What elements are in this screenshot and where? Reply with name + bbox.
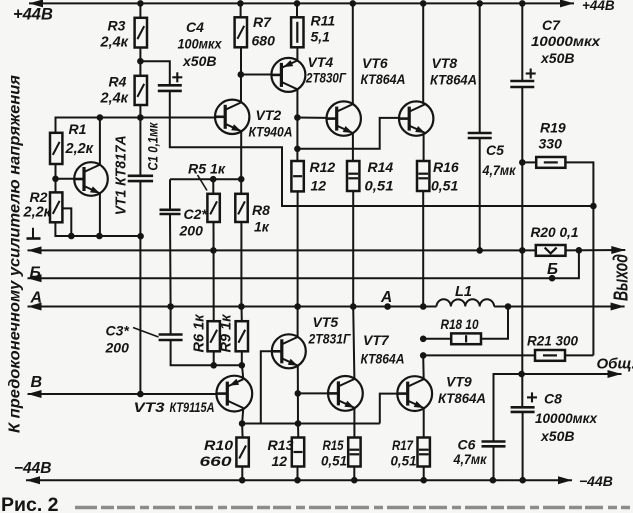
node VT2 emitter junction xyxy=(238,176,245,183)
node R3/R4/C4 junction xyxy=(137,58,144,65)
capacitor C3 xyxy=(159,333,183,336)
resistor R6 xyxy=(208,321,220,351)
resistor R15 xyxy=(348,438,360,467)
svg-text:С2*: С2* xyxy=(184,206,208,222)
wire rail to R7 xyxy=(240,3,242,17)
node A left arrow xyxy=(28,303,42,311)
node top rail C5 junction xyxy=(476,0,483,7)
wire R3-R4 link xyxy=(139,48,141,76)
node R15 rail junction xyxy=(351,477,358,484)
node R16 bus A junction xyxy=(420,303,427,310)
wire rail to C5 xyxy=(479,3,481,133)
node R6 bottom junction xyxy=(210,362,217,369)
node top rail R3 junction xyxy=(137,0,144,7)
svg-text:R11: R11 xyxy=(311,13,336,29)
capacitor C6 xyxy=(482,440,506,443)
svg-text:VT8: VT8 xyxy=(432,55,458,71)
svg-text:VT6: VT6 xyxy=(362,55,388,71)
wire bus to R20 (y=250.4) xyxy=(28,249,536,251)
power -44V left arrow xyxy=(26,476,40,484)
svg-text:Общ.: Общ. xyxy=(597,356,633,373)
svg-text:−44В: −44В xyxy=(14,460,52,477)
svg-text:КТ940А: КТ940А xyxy=(249,124,293,140)
transistor VT7 xyxy=(328,376,363,411)
resistor R16 xyxy=(417,161,429,191)
capacitor C4 xyxy=(158,84,182,87)
svg-text:Рис. 2: Рис. 2 xyxy=(1,494,59,513)
inductor L1 xyxy=(437,299,495,306)
svg-text:R20 0,1: R20 0,1 xyxy=(531,224,579,240)
wire R15 bottom lead xyxy=(353,467,355,481)
node R8/R9 bus A junction xyxy=(238,303,245,310)
wire VT1 emitter xyxy=(99,193,101,236)
node VT3 collector junction xyxy=(239,420,246,427)
svg-text:А: А xyxy=(30,289,43,306)
svg-text:1к: 1к xyxy=(254,219,270,235)
wire +44V top rail xyxy=(29,2,574,4)
svg-text:VT7: VT7 xyxy=(363,332,390,348)
wire R17 bottom lead xyxy=(423,467,425,481)
svg-text:+44В: +44В xyxy=(13,6,53,24)
wire B bus to R20 output xyxy=(552,250,579,278)
svg-text:В: В xyxy=(31,374,43,391)
svg-text:х50В: х50В xyxy=(540,428,574,444)
wire VT5 emitter down xyxy=(297,366,299,424)
capacitor C4 plus xyxy=(172,76,182,78)
node bootstrap end junction xyxy=(590,203,597,210)
node R4/C1/VT2-base junction xyxy=(137,114,144,121)
wire VT5 base hook xyxy=(261,351,272,423)
node driver column bus A junction xyxy=(294,303,301,310)
wire C4 to bootstrap line xyxy=(170,91,594,206)
svg-text:660: 660 xyxy=(200,453,232,469)
svg-text:R14: R14 xyxy=(368,159,394,175)
svg-text:Выход: Выход xyxy=(611,254,633,301)
transistor VT3 xyxy=(216,376,252,412)
resistor R10 xyxy=(236,438,248,467)
wire R2 tap xyxy=(62,208,71,236)
svg-text:VT1 КТ817А: VT1 КТ817А xyxy=(114,135,130,215)
svg-text:R3: R3 xyxy=(108,18,126,34)
svg-text:R8: R8 xyxy=(252,202,270,218)
wire R8 bottom to R9 top xyxy=(240,222,242,307)
svg-text:12: 12 xyxy=(272,453,288,469)
node R2 tap junction xyxy=(68,233,75,240)
svg-text:R16: R16 xyxy=(433,159,459,175)
wire R4 bottom to C1 xyxy=(139,105,141,176)
node VT1 collector junction xyxy=(97,114,104,121)
svg-text:С8: С8 xyxy=(544,391,562,407)
wire R18 right lead xyxy=(481,307,508,339)
svg-text:С4: С4 xyxy=(186,19,204,35)
wire R16 bottom to bus A xyxy=(422,191,424,307)
node output (Vykhod) arrow1 xyxy=(611,246,625,254)
wire VT1 collector xyxy=(99,118,101,165)
svg-text:680: 680 xyxy=(252,33,276,49)
svg-text:Б: Б xyxy=(30,264,41,281)
transistor VT1 xyxy=(74,162,108,196)
resistor R13 xyxy=(292,438,304,467)
wire R6 bottom lead xyxy=(213,351,215,365)
svg-text:0,51: 0,51 xyxy=(321,453,347,469)
wire Obsh line xyxy=(494,374,622,442)
transistor VT4 xyxy=(271,58,305,92)
wire bus A (y=306.5) left part xyxy=(28,306,437,308)
wire bus B (y=278.2) xyxy=(28,277,553,279)
transistor VT9 xyxy=(397,376,432,411)
wire R11 to VT4 emitter xyxy=(296,47,298,61)
node top rail R7 junction xyxy=(237,0,244,7)
resistor R12 xyxy=(291,161,303,191)
wire C8 to rail xyxy=(522,412,524,480)
node VT4/VT8-base junction xyxy=(294,146,301,153)
node C6 rail junction xyxy=(490,477,497,484)
wire R21 right lead xyxy=(565,354,593,356)
power +44V right arrow xyxy=(560,0,574,7)
svg-text:330: 330 xyxy=(539,136,563,152)
node top rail VT8 junction xyxy=(420,0,427,7)
node VT4/VT6-base junction xyxy=(294,114,301,121)
node VT5-emitter/R13 junction xyxy=(295,420,302,427)
capacitor C5 xyxy=(468,132,492,135)
wire rail to C7 xyxy=(521,3,523,80)
svg-text:2,2к: 2,2к xyxy=(23,204,52,220)
wire R5 bottom to R6 top xyxy=(213,222,215,321)
wire VT3 emitter up xyxy=(242,365,243,379)
transistor VT5 xyxy=(272,334,306,368)
svg-text:R6 1к: R6 1к xyxy=(192,314,208,353)
node R21 row left junction xyxy=(420,352,427,359)
node C5 bus250 junction xyxy=(476,247,483,254)
node VT1 emitter junction xyxy=(96,233,103,240)
svg-text:10000мкх: 10000мкх xyxy=(535,410,598,426)
svg-text:R2: R2 xyxy=(30,189,48,205)
wire VT9 collector up xyxy=(422,355,425,379)
wire R2 bottom to ground bus xyxy=(55,222,143,236)
node top rail R11 junction xyxy=(294,0,301,7)
node R20 left junction xyxy=(519,247,526,254)
wire C6 to rail xyxy=(493,446,495,480)
svg-text:−44В: −44В xyxy=(579,473,613,489)
node R5 top junction xyxy=(210,176,217,183)
wire VT4 base xyxy=(241,74,272,76)
wire R14 bottom to bus A xyxy=(352,191,354,307)
svg-text:КТ864А: КТ864А xyxy=(430,72,477,88)
node R7/VT2/VT4-base junction xyxy=(238,71,245,78)
node R13 rail junction xyxy=(294,477,301,484)
svg-text:R7: R7 xyxy=(253,14,272,30)
capacitor C8 plus xyxy=(527,396,537,398)
wire R1 bottom to junction xyxy=(55,164,57,192)
svg-text:R1: R1 xyxy=(69,121,87,137)
wire -44V bottom rail xyxy=(26,479,572,481)
resistor R5 xyxy=(207,194,219,222)
svg-text:КТ864А: КТ864А xyxy=(438,390,486,406)
wire R9 top lead xyxy=(241,307,243,322)
wire node179 line xyxy=(170,178,241,180)
wire R5 top lead xyxy=(212,179,214,194)
wire C5 to bus250 xyxy=(479,138,481,250)
svg-text:R13: R13 xyxy=(268,437,294,453)
svg-text:КТ9115А: КТ9115А xyxy=(170,399,215,415)
node R5 bus250 junction xyxy=(210,247,217,254)
wire C2 bottom to bus A xyxy=(169,214,172,307)
wire R13 bottom lead xyxy=(297,467,299,481)
wire VT3 collector down xyxy=(242,408,243,424)
scan artifact bottom streak xyxy=(75,506,630,509)
resistor R17 xyxy=(418,438,430,467)
wire node117 line R1-VT2 base xyxy=(56,118,216,133)
node Obsh arrow xyxy=(608,370,622,378)
transistor VT2 xyxy=(215,100,249,134)
wire VT6 base xyxy=(297,117,326,119)
wire VT1 base xyxy=(56,178,75,180)
svg-text:4,7мк: 4,7мк xyxy=(482,162,517,178)
svg-text:2,2к: 2,2к xyxy=(65,141,94,157)
wire rail to R3 xyxy=(139,3,141,17)
svg-text:R17: R17 xyxy=(392,437,414,453)
wire R21 row xyxy=(423,354,535,356)
wire VT6 emitter to R14 xyxy=(352,133,354,161)
resistor R9 xyxy=(236,321,248,351)
wire VT8 emitter to R16 xyxy=(423,133,425,161)
wire bus A to C3 xyxy=(170,307,172,335)
svg-text:VT9: VT9 xyxy=(446,374,472,390)
node R19 left junction xyxy=(519,159,526,166)
svg-text:0,51: 0,51 xyxy=(391,453,417,469)
resistor R19 xyxy=(536,157,565,168)
node top rail VT6 junction xyxy=(350,0,357,7)
svg-text:2Т831Г: 2Т831Г xyxy=(308,331,352,347)
node C8 rail junction xyxy=(519,477,526,484)
svg-text:R19: R19 xyxy=(540,120,566,136)
capacitor C8 xyxy=(511,406,535,409)
node Obsh junction xyxy=(518,371,525,378)
node B right junction xyxy=(549,275,556,282)
resistor R20 xyxy=(536,245,566,256)
wire bus A right part xyxy=(494,306,624,308)
svg-text:х50В: х50В xyxy=(540,50,574,66)
svg-text:С3*: С3* xyxy=(106,323,130,339)
capacitor C7 xyxy=(510,80,534,83)
resistor R7 xyxy=(235,17,247,47)
wire VT4 collector down xyxy=(296,89,298,161)
svg-text:4,7мк: 4,7мк xyxy=(453,451,488,467)
resistor R2 xyxy=(50,192,62,222)
svg-text:VT2: VT2 xyxy=(256,107,282,123)
wire VT5 emitter to VT7 base dot xyxy=(295,390,302,397)
svg-text:100мкх: 100мкх xyxy=(178,35,223,51)
wire R3/R4 junction to C4 xyxy=(140,61,169,85)
wire R18 left lead xyxy=(423,338,451,340)
capacitor C2 xyxy=(160,209,181,212)
svg-text:К предоконечному усилителю нап: К предоконечному усилителю напряжения xyxy=(6,74,23,433)
wire VT7 collector up xyxy=(353,307,354,380)
resistor R14 xyxy=(347,161,359,191)
node bus250 left arrow xyxy=(28,246,42,254)
node V left arrow xyxy=(28,390,42,398)
svg-text:0,51: 0,51 xyxy=(431,178,458,194)
wire to VT9 base xyxy=(380,394,398,424)
wire rail to R11 xyxy=(296,3,298,17)
svg-text:L1: L1 xyxy=(455,284,472,300)
ground symbol xyxy=(32,228,34,238)
wire VT6 collector xyxy=(352,3,354,104)
svg-text:С1 0,1мк: С1 0,1мк xyxy=(146,122,161,171)
svg-text:С5: С5 xyxy=(486,142,504,158)
wire VT7 base xyxy=(298,392,329,394)
capacitor C7 plus xyxy=(526,72,536,74)
node R1/R2/VT1-base junction xyxy=(52,176,59,183)
wire R8 top lead xyxy=(240,179,242,194)
wire VT8 collector xyxy=(422,3,424,104)
node C2/C3 bus A junction xyxy=(167,303,174,310)
resistor R4 xyxy=(135,76,147,105)
node L1/R18 bus A junction xyxy=(505,303,512,310)
resistor R21 xyxy=(535,350,565,361)
wire R19 left lead xyxy=(522,161,536,163)
resistor R3 xyxy=(135,18,147,48)
wire bus V (y=394) xyxy=(28,393,216,395)
node A label dot xyxy=(384,303,391,310)
svg-text:2Т830Г: 2Т830Г xyxy=(305,70,347,86)
svg-text:VT5: VT5 xyxy=(313,314,339,330)
svg-text:А: А xyxy=(380,289,392,306)
node R20 output junction xyxy=(576,247,583,254)
node R10 rail junction xyxy=(239,477,246,484)
power -44V right arrow xyxy=(558,476,572,484)
resistor R18 xyxy=(451,333,481,344)
wire R9 bottom lead xyxy=(241,351,243,365)
svg-text:Б: Б xyxy=(547,261,558,278)
node R17 rail junction xyxy=(420,477,427,484)
wire R10 top lead xyxy=(241,424,244,438)
wire VT9 emitter to R17 xyxy=(423,408,425,438)
wire VT2 emitter down xyxy=(240,131,242,179)
wire R10 bottom lead xyxy=(241,467,243,481)
wire C7 column down xyxy=(521,87,523,407)
svg-text:R10: R10 xyxy=(204,437,233,453)
wire C3 bottom to node365 xyxy=(171,340,242,365)
node R14 bus A junction xyxy=(350,303,357,310)
svg-text:КТ864А: КТ864А xyxy=(361,351,405,367)
wire R19 right lead to feedback column xyxy=(565,162,593,355)
node bus V junction xyxy=(137,391,144,398)
wire R20 right lead xyxy=(566,249,626,251)
wire to VT8 base xyxy=(297,118,399,149)
svg-text:VT3: VT3 xyxy=(134,399,165,415)
svg-text:12: 12 xyxy=(311,178,327,194)
svg-text:0,51: 0,51 xyxy=(365,178,394,194)
svg-text:2,4к: 2,4к xyxy=(100,91,129,107)
transistor VT8 xyxy=(399,101,433,135)
wire R13 top lead xyxy=(297,424,299,438)
wire R12 bottom to VT5 collector xyxy=(297,191,299,337)
node R18 left junction xyxy=(420,336,427,343)
svg-text:R15: R15 xyxy=(323,437,344,453)
svg-text:R12: R12 xyxy=(310,159,336,175)
svg-text:VT4: VT4 xyxy=(308,54,334,70)
wire VT7 emitter to R15 xyxy=(353,408,355,438)
resistor R11 xyxy=(291,17,303,47)
capacitor C1 xyxy=(128,175,153,178)
wire ground column down to bus V xyxy=(139,236,141,394)
wire node423 line xyxy=(242,423,380,425)
power +44V left arrow xyxy=(29,0,43,7)
wire C1 bottom to ground bus xyxy=(139,181,141,236)
svg-text:С7: С7 xyxy=(542,17,561,33)
svg-text:R18 10: R18 10 xyxy=(441,316,479,332)
svg-text:R5 1к: R5 1к xyxy=(188,160,226,176)
resistor R1 xyxy=(50,133,62,164)
resistor R8 xyxy=(235,194,247,222)
node top rail C7 junction xyxy=(519,0,526,7)
wire C2 top hook xyxy=(169,179,171,210)
node C1 ground junction xyxy=(137,233,144,240)
svg-text:КТ864А: КТ864А xyxy=(361,71,406,87)
node A (output) right arrow xyxy=(611,303,625,311)
node B left arrow xyxy=(28,274,42,282)
wire R7 to VT2 collector xyxy=(240,47,242,102)
svg-text:R9 1к: R9 1к xyxy=(219,314,235,353)
svg-text:+44В: +44В xyxy=(582,0,615,13)
svg-text:2,4к: 2,4к xyxy=(100,35,129,51)
svg-text:х50В: х50В xyxy=(182,53,216,69)
svg-text:10000мкх: 10000мкх xyxy=(531,33,601,49)
svg-text:200: 200 xyxy=(105,340,130,356)
node R9/VT3 emitter junction xyxy=(239,362,246,369)
svg-text:R21 300: R21 300 xyxy=(527,333,578,349)
svg-text:R4: R4 xyxy=(109,73,127,89)
transistor VT6 xyxy=(327,101,361,135)
svg-text:200: 200 xyxy=(179,223,204,239)
svg-text:5,1: 5,1 xyxy=(311,29,331,45)
